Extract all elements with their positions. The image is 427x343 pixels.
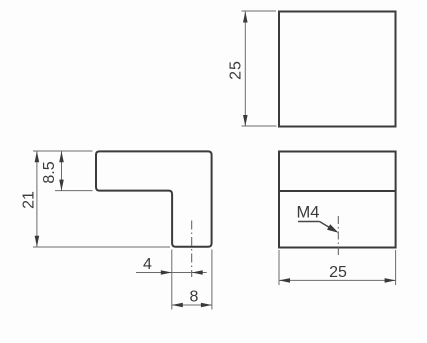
- dimension 4: [136, 272, 207, 274]
- extension line bottom (front): [33, 246, 170, 248]
- leader diagonal: [320, 222, 333, 230]
- divider edge line: [279, 190, 396, 192]
- svg-text:25: 25: [228, 60, 245, 80]
- dimension line 25 vertical: [244, 12, 246, 127]
- extension line bottom: [242, 125, 277, 127]
- dimension line 8.5: [61, 151, 63, 190]
- extension line leg-right (below): [211, 250, 213, 310]
- top view (square): [279, 12, 396, 127]
- svg-text:21: 21: [21, 191, 38, 209]
- dimension line 21: [36, 151, 38, 247]
- svg-text:M4: M4: [297, 204, 320, 222]
- centerline of tapped hole (front view): [191, 221, 193, 278]
- svg-text:8.5: 8.5: [41, 161, 58, 183]
- leader underline: [298, 221, 320, 223]
- dimension 25 bottom: [279, 279, 396, 281]
- extension line leg-left (below): [171, 250, 173, 310]
- extension line left (bottom view): [278, 250, 280, 285]
- svg-text:25: 25: [329, 264, 347, 281]
- dimension 8: [172, 304, 212, 306]
- svg-text:8: 8: [190, 289, 199, 306]
- arrow up: [243, 12, 248, 23]
- extension line inner edge: [55, 190, 93, 192]
- bottom view (rectangle): [279, 152, 396, 248]
- arrow down: [243, 115, 248, 126]
- extension line top (front): [33, 150, 93, 152]
- extension line right (bottom view): [395, 250, 397, 285]
- svg-text:4: 4: [143, 256, 152, 273]
- leader arrowhead: [327, 224, 339, 233]
- centerline of tapped hole (bottom view): [337, 216, 339, 256]
- front view (L-shape outline): [96, 151, 212, 246]
- extension line top: [242, 10, 277, 12]
